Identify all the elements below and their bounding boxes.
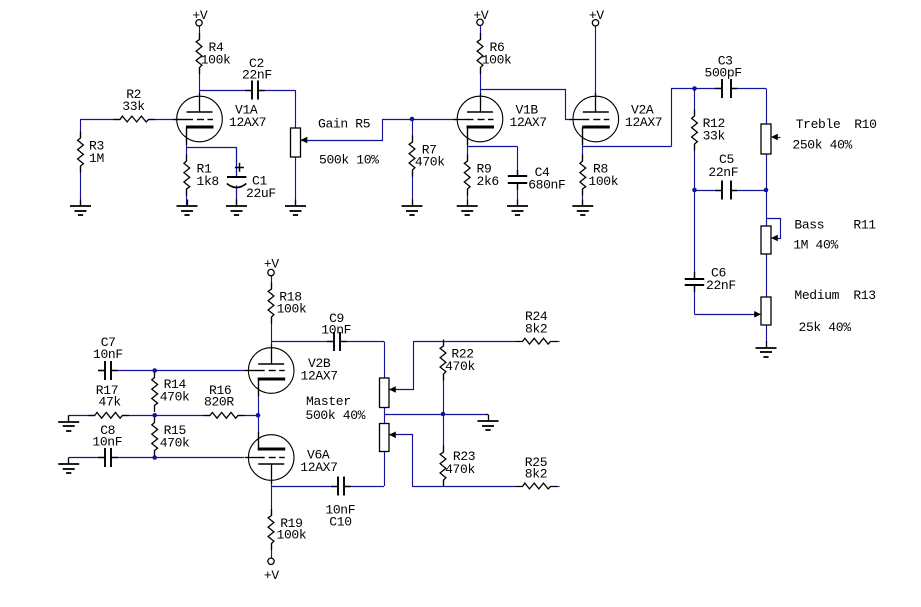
svg-text:+V: +V xyxy=(473,8,488,23)
svg-text:+V: +V xyxy=(192,8,207,23)
svg-text:500k 10%: 500k 10% xyxy=(319,153,379,168)
svg-text:R13: R13 xyxy=(853,288,875,303)
svg-text:33k: 33k xyxy=(703,128,726,143)
svg-text:820R: 820R xyxy=(204,394,234,409)
svg-text:22nF: 22nF xyxy=(706,278,736,293)
svg-text:25k 40%: 25k 40% xyxy=(799,320,852,335)
svg-text:22nF: 22nF xyxy=(708,165,738,180)
svg-text:22nF: 22nF xyxy=(242,68,272,83)
svg-text:10nF: 10nF xyxy=(92,435,122,450)
svg-text:1M: 1M xyxy=(89,151,104,166)
svg-text:100k: 100k xyxy=(201,53,231,68)
svg-text:8k2: 8k2 xyxy=(525,322,547,337)
svg-text:12AX7: 12AX7 xyxy=(301,369,338,384)
svg-text:470k: 470k xyxy=(415,155,445,170)
svg-text:100k: 100k xyxy=(277,302,307,317)
svg-text:Master: Master xyxy=(306,394,351,409)
svg-text:+V: +V xyxy=(264,257,279,272)
svg-text:12AX7: 12AX7 xyxy=(625,115,662,130)
svg-text:Bass: Bass xyxy=(794,218,824,233)
svg-text:C10: C10 xyxy=(329,515,351,530)
svg-text:10nF: 10nF xyxy=(93,347,123,362)
svg-text:470k: 470k xyxy=(445,462,475,477)
svg-text:8k2: 8k2 xyxy=(525,467,547,482)
svg-text:1k8: 1k8 xyxy=(197,174,219,189)
svg-text:R11: R11 xyxy=(853,218,876,233)
svg-text:12AX7: 12AX7 xyxy=(300,460,337,475)
svg-text:47k: 47k xyxy=(99,394,122,409)
svg-text:12AX7: 12AX7 xyxy=(510,115,547,130)
svg-text:22uF: 22uF xyxy=(246,186,276,201)
svg-text:250k 40%: 250k 40% xyxy=(792,138,852,153)
svg-text:100k: 100k xyxy=(588,174,618,189)
svg-text:+V: +V xyxy=(589,8,604,23)
svg-text:500pF: 500pF xyxy=(705,66,742,81)
svg-text:100k: 100k xyxy=(277,528,307,543)
svg-text:470k: 470k xyxy=(160,436,190,451)
svg-text:12AX7: 12AX7 xyxy=(229,115,266,130)
svg-text:+V: +V xyxy=(264,568,279,583)
svg-text:500k 40%: 500k 40% xyxy=(306,408,366,423)
svg-text:Gain R5: Gain R5 xyxy=(318,116,370,131)
svg-text:Medium: Medium xyxy=(794,288,839,303)
svg-text:33k: 33k xyxy=(122,99,145,114)
svg-text:1M 40%: 1M 40% xyxy=(793,237,838,252)
svg-text:680nF: 680nF xyxy=(528,178,565,193)
svg-text:R10: R10 xyxy=(854,117,876,132)
svg-text:2k6: 2k6 xyxy=(477,174,499,189)
svg-text:470k: 470k xyxy=(445,359,475,374)
svg-text:100k: 100k xyxy=(482,53,512,68)
svg-text:10nF: 10nF xyxy=(321,323,351,338)
svg-text:Treble: Treble xyxy=(796,117,841,132)
svg-text:470k: 470k xyxy=(160,390,190,405)
